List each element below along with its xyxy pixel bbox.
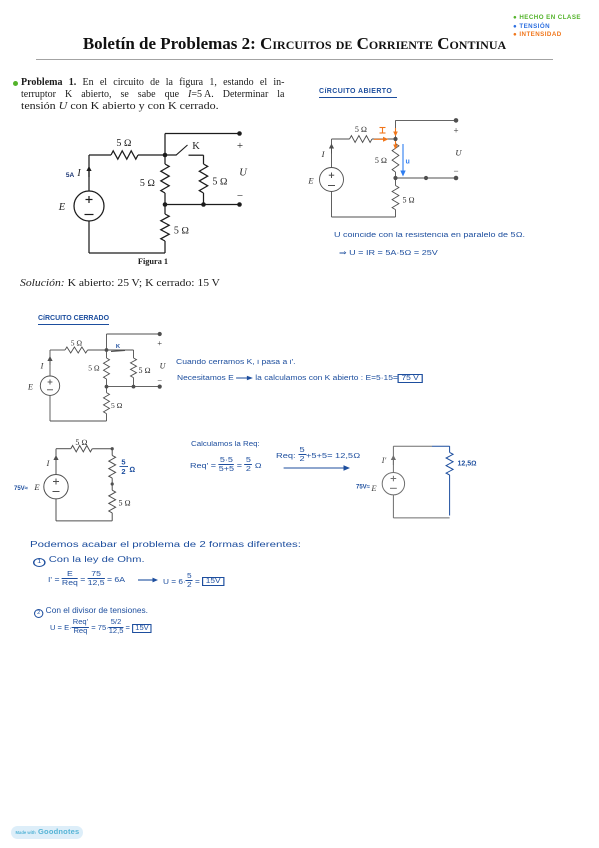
svg-text:5 Ω: 5 Ω — [139, 366, 151, 375]
svg-text:E: E — [27, 383, 33, 392]
svg-text:−: − — [237, 190, 243, 202]
svg-text:E: E — [58, 202, 66, 213]
svg-text:E: E — [370, 483, 377, 493]
svg-text:Ω: Ω — [130, 465, 136, 474]
svg-text:5 Ω: 5 Ω — [75, 438, 87, 447]
svg-text:E: E — [33, 482, 40, 492]
svg-text:5: 5 — [121, 458, 125, 467]
svg-text:5 Ω: 5 Ω — [403, 196, 415, 205]
svg-text:5 Ω: 5 Ω — [355, 125, 367, 134]
svg-text:I: I — [40, 362, 44, 371]
svg-text:+: + — [157, 338, 162, 348]
svg-text:U: U — [160, 362, 167, 371]
svg-text:5A: 5A — [66, 172, 75, 179]
svg-text:5 Ω: 5 Ω — [212, 177, 228, 188]
svg-text:+: + — [453, 126, 458, 136]
svg-text:I′: I′ — [381, 456, 387, 465]
svg-text:−: − — [453, 166, 458, 176]
svg-text:5 Ω: 5 Ω — [375, 156, 387, 165]
svg-text:75V≈: 75V≈ — [356, 485, 371, 491]
svg-text:5 Ω: 5 Ω — [111, 401, 122, 410]
svg-text:+: + — [237, 140, 243, 152]
svg-text:5 Ω: 5 Ω — [140, 178, 156, 189]
svg-text:5 Ω: 5 Ω — [174, 226, 190, 237]
svg-text:5 Ω: 5 Ω — [119, 499, 131, 508]
svg-text:U: U — [455, 148, 462, 158]
svg-text:I: I — [46, 459, 50, 468]
svg-text:K: K — [192, 141, 200, 152]
svg-text:5 Ω: 5 Ω — [116, 138, 132, 149]
svg-text:2: 2 — [121, 467, 125, 476]
svg-text:5 Ω: 5 Ω — [88, 364, 99, 373]
svg-text:5 Ω: 5 Ω — [71, 339, 82, 348]
svg-text:−: − — [157, 376, 162, 386]
svg-text:75V≈: 75V≈ — [14, 486, 29, 492]
svg-text:12,5Ω: 12,5Ω — [458, 461, 477, 468]
svg-text:u: u — [406, 159, 410, 166]
svg-text:I: I — [76, 168, 81, 179]
svg-text:U: U — [239, 168, 248, 179]
svg-text:I: I — [321, 149, 326, 159]
svg-text:E: E — [307, 176, 314, 186]
svg-text:K: K — [116, 344, 121, 350]
